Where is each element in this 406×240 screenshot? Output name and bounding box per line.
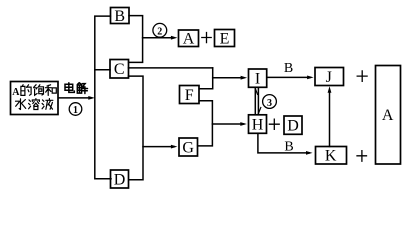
box source: A saturated aqueous solution <box>11 82 59 115</box>
svg-text:F: F <box>185 87 194 104</box>
wire: left bracket vertical with stubs to B, C, D <box>95 16 111 179</box>
box A small <box>179 30 199 47</box>
wire: double arrow down from I to H <box>257 88 259 114</box>
wire: arrow 2 from vertical to box A <box>143 37 175 39</box>
wire: double arrow up from H row to I <box>254 88 256 114</box>
glyph 电 <box>65 83 74 93</box>
wire: bracket stub to C <box>95 69 110 71</box>
label plus between A and E <box>202 33 211 43</box>
glyph 和 <box>45 85 56 96</box>
glyph 解 <box>77 83 87 94</box>
svg-text:D: D <box>287 118 299 135</box>
wire: arrow into G <box>143 146 174 148</box>
svg-text:H: H <box>252 117 264 134</box>
glyph 溶 <box>29 99 40 110</box>
wire: B right down to C top stub <box>129 16 143 63</box>
svg-text:A: A <box>382 107 394 124</box>
svg-text:1: 1 <box>73 105 78 116</box>
box I <box>249 69 267 87</box>
label circled 3 <box>263 95 277 109</box>
svg-text:A: A <box>12 87 20 98</box>
wire: C middle output long line to junction <box>129 67 213 69</box>
wire: H down and right to K labelled B <box>258 133 309 153</box>
wire: arrow into I <box>213 77 244 79</box>
svg-text:G: G <box>182 139 194 156</box>
svg-text:2: 2 <box>157 26 162 37</box>
wire: arrow I to J labelled B <box>267 76 311 78</box>
wire: arrow into H <box>212 123 243 125</box>
svg-text:B: B <box>284 61 293 76</box>
label line1 "A的饱和" <box>12 85 56 98</box>
glyph 的 <box>21 85 31 96</box>
wire: C bottom output down to D right stub <box>129 76 144 180</box>
svg-text:B: B <box>284 140 293 155</box>
svg-text:A: A <box>183 31 195 48</box>
svg-text:J: J <box>326 69 332 86</box>
box D2 <box>284 116 302 134</box>
box J <box>315 68 344 86</box>
svg-text:E: E <box>220 30 230 47</box>
wire: arrow K up to J <box>329 90 331 146</box>
label plus between H and D <box>269 119 279 129</box>
box D <box>111 170 129 188</box>
box F <box>180 86 200 104</box>
svg-text:D: D <box>114 171 126 188</box>
box E <box>215 30 235 47</box>
label line2 "水溶液" <box>16 99 53 110</box>
glyph 水 <box>16 99 26 110</box>
label circled 2 <box>153 23 167 37</box>
box K <box>316 147 347 165</box>
label 电解 <box>65 83 88 94</box>
wire: electrolysis arrow from source box to bracket <box>58 97 91 99</box>
svg-text:C: C <box>114 61 125 78</box>
svg-text:B: B <box>114 8 125 25</box>
label plus after J <box>357 71 367 82</box>
glyph 液 <box>42 99 53 110</box>
box B <box>111 8 130 24</box>
box H <box>249 115 267 134</box>
glyph 饱 <box>34 85 44 96</box>
box C <box>110 60 129 79</box>
wire: F bottom output down to G right stub <box>198 101 213 146</box>
box A tall <box>376 66 401 165</box>
box G <box>179 138 198 156</box>
label circled 1 <box>69 103 82 116</box>
svg-text:I: I <box>255 71 260 88</box>
wire: F top output up to junction <box>199 68 213 89</box>
svg-text:K: K <box>325 148 337 165</box>
label plus after K <box>357 151 367 162</box>
svg-text:3: 3 <box>267 98 272 109</box>
